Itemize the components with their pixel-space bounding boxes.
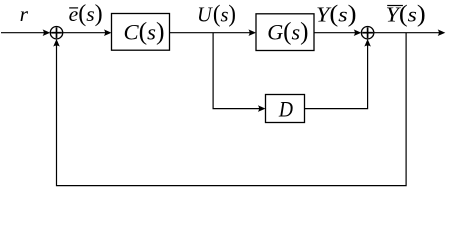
- svg-text:Y(s): Y(s): [316, 1, 357, 27]
- svg-text:D: D: [278, 97, 293, 122]
- arrowhead into S2 left: [354, 29, 362, 36]
- svg-text:G(s): G(s): [267, 17, 308, 46]
- wire output: [374, 32, 440, 34]
- wire feedback loop: [57, 33, 407, 186]
- wire summing1 to C: [63, 32, 106, 34]
- wire C to G: [170, 32, 251, 34]
- arrowhead into block G: [248, 29, 256, 36]
- svg-text:r: r: [20, 2, 29, 26]
- svg-text:U(s): U(s): [197, 1, 236, 27]
- arrowhead into block C: [104, 29, 112, 36]
- svg-text:C(s): C(s): [124, 17, 165, 46]
- arrowhead output end: [438, 29, 446, 36]
- wire D to summing2 from below: [305, 45, 368, 109]
- block D: [266, 95, 305, 123]
- block G(s): [256, 14, 314, 51]
- summing junction S1: [50, 27, 62, 39]
- svg-text:e(s): e(s): [69, 1, 103, 27]
- wire input r: [1, 32, 44, 34]
- arrowhead into S1: [43, 29, 51, 36]
- wire G to summing2: [314, 32, 356, 34]
- arrowhead up into S2 bottom: [364, 39, 371, 47]
- arrowhead up into S1 bottom: [53, 39, 60, 47]
- wire U tap down to D: [213, 33, 259, 109]
- block C(s): [112, 14, 170, 51]
- arrowhead into block D: [258, 105, 266, 112]
- summing junction S2: [361, 27, 373, 39]
